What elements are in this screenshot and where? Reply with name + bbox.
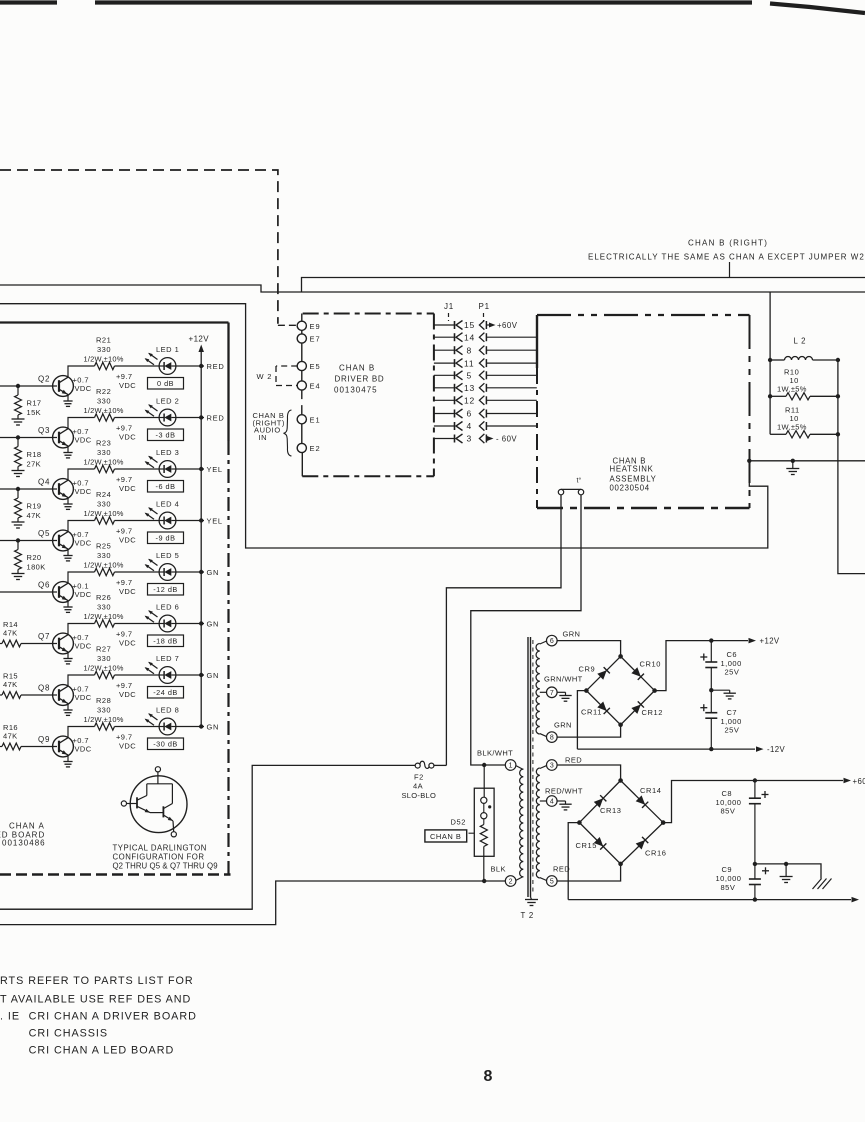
terminal 6 GRN [547, 630, 581, 646]
svg-text:R28: R28 [96, 696, 111, 705]
jumper W2 dashed bracket [276, 366, 297, 386]
wire bridge2 plus to +60V rail [663, 781, 843, 823]
svg-text:00130475: 00130475 [334, 386, 378, 395]
svg-text:5: 5 [550, 879, 554, 886]
LED LED7 [145, 662, 176, 684]
node C6 top [709, 638, 713, 642]
svg-text:TYPICAL DARLINGTON: TYPICAL DARLINGTON [113, 844, 207, 853]
svg-text:GN: GN [207, 723, 220, 732]
svg-text:. IE: . IE [0, 1011, 20, 1023]
resistor R24 330 1/2W [84, 490, 124, 524]
svg-text:1W,±5%: 1W,±5% [777, 384, 807, 393]
connector J1 pin 15 [434, 320, 475, 330]
svg-text:RED/WHT: RED/WHT [545, 787, 583, 796]
svg-text:1: 1 [509, 763, 513, 770]
label +9.7 VDC [116, 733, 136, 751]
wire P1 pin 4 to heatsink [486, 425, 537, 427]
svg-text:LED 7: LED 7 [156, 654, 179, 663]
thermal switch t-degree terminals [558, 477, 583, 495]
node C9 bottom [753, 897, 757, 901]
typical darlington detail circle [121, 767, 187, 837]
node +12V rail row 7 [199, 673, 203, 677]
label +9.7 VDC [116, 630, 136, 648]
svg-text:LED 2: LED 2 [156, 397, 179, 406]
svg-text:T 2: T 2 [521, 911, 535, 920]
wire node to terminal 1 [484, 764, 505, 766]
svg-text:1/2W,±10%: 1/2W,±10% [84, 561, 124, 570]
bridge rectifier CR9-CR12 frame [586, 656, 654, 724]
wire +60V with arrow [486, 321, 518, 330]
page top border line [0, 3, 865, 14]
wire P1 pin 13 to heatsink [486, 387, 537, 389]
svg-text:RED: RED [565, 756, 582, 765]
transistor Q2 [53, 376, 74, 407]
node primary top [482, 763, 486, 767]
svg-text:VDC: VDC [75, 539, 92, 548]
svg-text:RTS REFER TO PARTS LIST FOR: RTS REFER TO PARTS LIST FOR [0, 975, 194, 987]
svg-text:+9.7: +9.7 [116, 372, 132, 381]
svg-text:GRN: GRN [563, 630, 581, 639]
node ground stem [784, 862, 788, 866]
svg-text:VDC: VDC [75, 590, 92, 599]
label CHAN B (RIGHT) AUDIO IN [253, 411, 286, 442]
terminal E9 [297, 321, 320, 331]
svg-text:R21: R21 [96, 336, 111, 345]
svg-text:8: 8 [550, 735, 554, 742]
node +12V rail row 2 [199, 415, 203, 419]
svg-text:VDC: VDC [75, 642, 92, 651]
node +12V rail row 1 [199, 364, 203, 368]
svg-text:7: 7 [550, 690, 554, 697]
connector P1 pin 6 [479, 409, 486, 418]
svg-text:1W,±5%: 1W,±5% [777, 422, 807, 431]
svg-text:CR9: CR9 [579, 665, 596, 674]
label base-emitter VDC [73, 376, 92, 394]
diode CR12 [631, 701, 663, 716]
node +12V rail row 4 [199, 518, 203, 522]
label 0 dB box [148, 378, 184, 390]
connector P1 pin 11 [479, 359, 486, 368]
svg-text:1/2W,±10%: 1/2W,±10% [84, 355, 124, 364]
svg-text:13: 13 [464, 383, 475, 393]
svg-text:4: 4 [550, 799, 554, 806]
svg-text:R23: R23 [96, 439, 111, 448]
label base-emitter VDC [73, 530, 92, 548]
winding T2 primary [516, 766, 523, 881]
label +9.7 VDC [116, 578, 136, 596]
wire P1 pin 6 to heatsink [486, 413, 537, 415]
node primary bottom [482, 879, 486, 883]
label +9.7 VDC [116, 681, 136, 699]
diode CR9 [579, 665, 610, 680]
wire base from left edge [0, 540, 57, 542]
label CHAN B HEATSINK ASSEMBLY 00230504 [610, 457, 657, 493]
wire collector [68, 418, 95, 429]
resistor R20 180K [12, 541, 46, 580]
connector J1 pin 3 [434, 434, 472, 444]
wire collector [68, 366, 95, 377]
resistor R23 330 1/2W [84, 439, 124, 473]
svg-text:00130486: 00130486 [2, 839, 46, 848]
connector J1 pin 13 [434, 383, 475, 393]
label J1 [444, 302, 454, 321]
wire from left edge to heatsink node (left/bottom route) [0, 304, 768, 548]
svg-text:VDC: VDC [119, 381, 136, 390]
node R11 right [836, 432, 840, 436]
label CHAN B box [425, 830, 467, 842]
wire LED to rail [176, 417, 204, 419]
transistor Q3 [53, 427, 74, 458]
label base-emitter VDC [73, 633, 92, 651]
node bridge2 corner [577, 820, 582, 825]
connector P1 pin 15 [479, 320, 486, 329]
resistor R14 47K input [0, 620, 21, 647]
svg-text:47K: 47K [3, 732, 18, 741]
node base Q5 [16, 538, 20, 542]
svg-text:R25: R25 [96, 542, 111, 551]
terminal E2 [297, 443, 320, 453]
connector J1 pin 11 [434, 358, 475, 368]
connector P1 pin 12 [479, 396, 486, 405]
label D52 [451, 818, 475, 834]
resistor R11 10 1W [770, 406, 838, 438]
svg-text:L 2: L 2 [794, 337, 807, 346]
resistor R15 47K input [0, 672, 21, 699]
svg-text:47K: 47K [3, 680, 18, 689]
svg-text:330: 330 [97, 397, 111, 406]
node base Q3 [16, 435, 20, 439]
node R10 left [768, 394, 772, 398]
wire P1 pin 12 to heatsink [486, 399, 537, 401]
wire terminal 3 to bridge2 [557, 765, 621, 781]
resistor R17 15K [12, 386, 42, 425]
leader tick from note to wire [729, 262, 731, 278]
svg-text:VDC: VDC [119, 433, 136, 442]
wire bridge1 plus to +12V [655, 641, 748, 691]
capacitor C6 1000 25V [700, 641, 741, 691]
diode CR10 [631, 660, 661, 680]
wire -12V rail [577, 748, 755, 750]
svg-text:15K: 15K [27, 408, 42, 417]
wire LED to rail [176, 365, 204, 367]
node bridge corner [618, 723, 623, 728]
wire P1 pin 5 to heatsink [486, 374, 537, 376]
wire -60V rail [568, 899, 851, 901]
wire rail right of L2 down to right edge [838, 360, 865, 574]
label -9 dB box [148, 532, 184, 544]
svg-text:3: 3 [467, 434, 473, 444]
svg-text:3: 3 [550, 763, 554, 770]
wire terminal 5 to bridge2 [557, 864, 621, 881]
diode CR13 [594, 795, 622, 815]
arrow -12V [756, 745, 785, 754]
svg-text:CR10: CR10 [640, 660, 662, 669]
wire LED to rail [176, 674, 204, 676]
wire lower return to left edge [0, 908, 252, 910]
svg-text:GRN/WHT: GRN/WHT [544, 675, 583, 684]
terminal 2 BLK [491, 865, 516, 887]
label +9.7 VDC [116, 372, 136, 390]
svg-text:+12V: +12V [189, 335, 210, 344]
svg-text:47K: 47K [27, 511, 42, 520]
node C8 bottom [753, 862, 757, 866]
wire collector [68, 727, 95, 738]
svg-text:2: 2 [509, 879, 513, 886]
svg-text:VDC: VDC [119, 690, 136, 699]
svg-text:IN: IN [259, 433, 268, 442]
label -3 dB box [148, 429, 184, 441]
svg-text:RED: RED [207, 362, 225, 371]
wire bridge2 minus to -60V rail [568, 823, 579, 900]
svg-text:CR16: CR16 [645, 848, 667, 857]
LED LED2 [145, 404, 176, 426]
connector J1 pin 14 [434, 332, 475, 342]
connector P1 pin 13 [479, 383, 486, 392]
LED LED5 [145, 559, 176, 581]
node base Q4 [16, 487, 20, 491]
transistor Q7 [53, 633, 74, 664]
svg-text:GN: GN [207, 671, 220, 680]
svg-text:8: 8 [484, 1068, 493, 1085]
wire BLK return to left edge [0, 881, 505, 925]
svg-text:VDC: VDC [119, 639, 136, 648]
svg-text:R20: R20 [27, 553, 42, 562]
svg-text:VDC: VDC [75, 693, 92, 702]
svg-text:HEATSINK: HEATSINK [610, 465, 654, 474]
wire base [21, 643, 57, 645]
svg-text:VDC: VDC [75, 436, 92, 445]
svg-text:BLK/WHT: BLK/WHT [477, 749, 513, 758]
ground chassis hatched [813, 879, 832, 890]
svg-text:ELECTRICALLY THE SAME AS CHAN: ELECTRICALLY THE SAME AS CHAN A EXCEPT J… [588, 253, 865, 262]
label typical darlington configuration [113, 844, 218, 871]
ground terminal 4 [557, 801, 572, 810]
terminal 1 BLK/WHT [477, 749, 516, 771]
label -24 dB box [148, 687, 184, 699]
svg-text:1/2W,±10%: 1/2W,±10% [84, 612, 124, 621]
wire to LED [115, 674, 159, 676]
svg-text:R17: R17 [27, 399, 42, 408]
svg-text:+60V: +60V [497, 321, 518, 330]
svg-text:330: 330 [97, 345, 111, 354]
svg-text:330: 330 [97, 448, 111, 457]
brace audio in [284, 410, 292, 456]
wire base from left edge [0, 385, 57, 387]
svg-text:Q4: Q4 [38, 478, 50, 487]
ground mid supply [711, 690, 736, 699]
ground terminal 7 [557, 692, 572, 701]
svg-text:Q7: Q7 [38, 632, 50, 641]
diode CR11 [581, 701, 610, 716]
label base-emitter VDC [73, 736, 92, 754]
svg-text:25V: 25V [725, 668, 740, 677]
svg-text:RED: RED [207, 414, 225, 423]
svg-text:P1: P1 [479, 302, 490, 311]
arrow +60V [844, 777, 865, 786]
svg-text:LED 4: LED 4 [156, 500, 179, 509]
svg-text:R19: R19 [27, 502, 42, 511]
node bridge corner [584, 688, 589, 693]
node ground tap [791, 459, 795, 463]
transistor Q8 [53, 685, 74, 716]
connector P1 pin 3 [479, 434, 486, 443]
svg-text:W 2: W 2 [257, 372, 273, 381]
svg-text:R24: R24 [96, 490, 111, 499]
diode CR14 [636, 786, 662, 808]
svg-text:5: 5 [467, 371, 473, 381]
svg-text:R22: R22 [96, 387, 111, 396]
svg-text:CRI CHASSIS: CRI CHASSIS [29, 1028, 108, 1040]
terminal E7 [297, 334, 320, 344]
wire mid node to grounds [755, 864, 821, 879]
wire P1 pin 11 to heatsink [486, 362, 537, 364]
wire E terminal column [301, 330, 304, 476]
wire LED to rail [176, 468, 204, 470]
label CHAN B DRIVER BD 00130475 [334, 364, 384, 395]
svg-text:-9 dB: -9 dB [156, 534, 176, 543]
svg-text:E2: E2 [310, 444, 321, 453]
LED LED4 [145, 507, 176, 529]
svg-text:-3 dB: -3 dB [156, 431, 176, 440]
svg-text:6: 6 [550, 638, 554, 645]
svg-text:YEL: YEL [207, 465, 223, 474]
svg-text:8: 8 [467, 345, 473, 355]
terminal 3 RED [547, 756, 583, 771]
svg-text:10,000: 10,000 [716, 798, 742, 807]
svg-text:LED 3: LED 3 [156, 448, 179, 457]
node heatsink output [747, 459, 751, 463]
svg-text:LED 1: LED 1 [156, 345, 179, 354]
svg-text:330: 330 [97, 500, 111, 509]
wire to LED [115, 726, 159, 728]
wire rail left of L2 [769, 292, 771, 434]
terminal 4 RED/WHT [545, 787, 583, 807]
capacitor C7 1000 25V [700, 690, 741, 749]
wire base from left edge [0, 488, 57, 490]
node bridge corner [652, 688, 657, 693]
arrow -60V [852, 897, 860, 903]
svg-text:11: 11 [464, 358, 474, 368]
capacitor C8 10,000 85V [716, 781, 769, 864]
svg-text:27K: 27K [27, 460, 42, 469]
wire to LED [115, 571, 159, 573]
node R10 right [836, 394, 840, 398]
svg-text:SLO-BLO: SLO-BLO [402, 791, 437, 800]
svg-text:-12V: -12V [767, 745, 785, 754]
svg-text:1/2W,±10%: 1/2W,±10% [84, 406, 124, 415]
wire base [21, 746, 57, 748]
svg-text:VDC: VDC [119, 536, 136, 545]
svg-text:330: 330 [97, 551, 111, 560]
svg-text:180K: 180K [27, 563, 46, 572]
node bridge2 corner [661, 820, 666, 825]
svg-text:CONFIGURATION FOR: CONFIGURATION FOR [113, 853, 205, 862]
wire P1 pin 8 to heatsink [486, 349, 537, 351]
LED LED6 [145, 610, 176, 632]
node C7 bottom [709, 747, 713, 751]
resistor R18 27K [12, 438, 42, 477]
capacitor C9 10,000 85V [716, 864, 770, 900]
svg-text:D52: D52 [451, 818, 467, 827]
wire base from left edge [0, 437, 57, 439]
wire collector [68, 572, 95, 583]
inductor L2 [770, 337, 838, 361]
node base Q2 [16, 384, 20, 388]
svg-text:00230504: 00230504 [610, 483, 650, 492]
wire to LED [115, 468, 159, 470]
svg-text:CR11: CR11 [581, 708, 602, 717]
svg-text:12: 12 [464, 396, 475, 406]
ground T2 core [525, 897, 538, 906]
wire base [21, 694, 57, 696]
svg-text:GRN: GRN [554, 721, 572, 730]
svg-text:DRIVER BD: DRIVER BD [335, 375, 385, 384]
svg-text:-24 dB: -24 dB [153, 688, 178, 697]
transistor Q4 [53, 479, 74, 510]
winding T2 secondary upper [536, 641, 547, 737]
svg-text:t°: t° [577, 477, 582, 485]
wire t-left to fuse F2 branch [446, 495, 561, 766]
svg-text:-12 dB: -12 dB [153, 585, 178, 594]
svg-text:E7: E7 [310, 335, 321, 344]
svg-text:CHAN A: CHAN A [9, 822, 45, 831]
svg-text:C6: C6 [727, 650, 738, 659]
svg-text:-6 dB: -6 dB [156, 482, 176, 491]
label -18 dB box [148, 635, 184, 647]
svg-text:LED 8: LED 8 [156, 706, 179, 715]
LED LED8 [145, 713, 176, 735]
resistor R21 330 1/2W [84, 336, 124, 370]
node bridge2 corner [618, 778, 623, 783]
svg-text:CR13: CR13 [600, 806, 622, 815]
CHAN B DRIVER BD box [302, 314, 434, 477]
LED LED1 [145, 353, 176, 375]
svg-text:F2: F2 [414, 773, 424, 782]
connector P1 pin 5 [479, 371, 486, 380]
svg-text:J1: J1 [444, 302, 454, 311]
svg-text:CHAN B (RIGHT): CHAN B (RIGHT) [688, 239, 768, 248]
wire A to right edge [302, 278, 865, 293]
svg-text:E5: E5 [310, 362, 321, 371]
terminal 7 GRN/WHT [544, 675, 583, 698]
svg-text:VDC: VDC [75, 384, 92, 393]
wire LED to rail [176, 623, 204, 625]
svg-text:1/2W,±10%: 1/2W,±10% [84, 715, 124, 724]
note parts list [0, 975, 197, 1057]
svg-text:VDC: VDC [119, 587, 136, 596]
wire LED to rail [176, 571, 204, 573]
svg-text:0 dB: 0 dB [157, 379, 174, 388]
svg-text:R27: R27 [96, 645, 111, 654]
dashed wire W2 jumper from chan A to E9 [0, 170, 278, 324]
svg-text:Q2: Q2 [38, 375, 50, 384]
node +12V rail row 6 [199, 621, 203, 625]
label -6 dB box [148, 481, 184, 493]
diode CR16 [636, 837, 667, 858]
transistor Q5 [53, 530, 74, 561]
svg-text:Q9: Q9 [38, 735, 50, 744]
connector P1 pin 14 [479, 333, 486, 342]
label -30 dB box [148, 738, 184, 750]
svg-text:VDC: VDC [119, 484, 136, 493]
terminal 5 RED [547, 865, 571, 887]
node bridge2 corner [618, 862, 623, 867]
svg-text:C7: C7 [727, 708, 738, 717]
wire LED to rail [176, 726, 204, 728]
svg-text:Q8: Q8 [38, 684, 50, 693]
svg-text:CRI CHAN A DRIVER BOARD: CRI CHAN A DRIVER BOARD [29, 1011, 197, 1023]
label +9.7 VDC [116, 424, 136, 442]
